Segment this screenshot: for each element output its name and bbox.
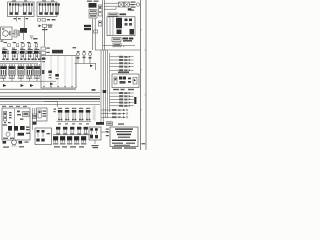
M4 transistor Q51 <box>90 128 93 134</box>
eq stage Q73 <box>70 127 74 135</box>
supply tap B9 <box>110 102 134 104</box>
rectifier cluster D31 <box>87 1 99 8</box>
SW1 label <box>120 13 127 15</box>
amplifier output block U1 (top-left box) <box>8 2 35 17</box>
title line 5 <box>112 140 136 141</box>
output jack row K1 <box>101 109 128 111</box>
M3 resistor R41 <box>128 78 131 83</box>
PL1 cord wire <box>129 4 136 6</box>
supply tap B2 <box>110 59 134 61</box>
footer note text <box>112 147 136 148</box>
capacitor C31 <box>98 21 102 26</box>
trimmer VR1 <box>77 53 80 64</box>
trimmer VR2 <box>83 52 86 63</box>
trimmer common wire W10 <box>75 64 97 71</box>
capacitor C12 <box>13 42 19 47</box>
value labels between rows <box>58 123 89 124</box>
supply tap B5 <box>110 69 134 71</box>
mixer stage T15 <box>86 108 91 121</box>
diode D11 <box>21 84 25 87</box>
title line 4 <box>118 137 130 138</box>
supply tap B4 <box>110 66 134 68</box>
M6 label text <box>43 111 47 117</box>
speaker terminal dots <box>2 29 11 36</box>
text row under M5 <box>3 142 29 148</box>
wire from R5 down to preamp box <box>43 27 45 46</box>
tuner box M5 <box>2 108 30 140</box>
eq stage Q74 <box>77 127 81 135</box>
filter IC U23 <box>67 136 72 144</box>
zener bank Z1 (dark bar) <box>134 97 136 104</box>
M3 capacitor C41 <box>114 77 117 84</box>
Q64 leads <box>12 144 16 147</box>
power supply module box M2 <box>107 17 135 36</box>
preamp IC U11 <box>0 64 7 79</box>
M5 oscillator X1 <box>23 112 30 117</box>
diode D1 arrow <box>39 25 42 28</box>
M1 electrolytic C21 <box>42 70 44 74</box>
M1 internal bus wires <box>44 56 72 88</box>
page edge tick marks <box>141 30 147 110</box>
driver stage Q15 <box>34 49 41 60</box>
ground symbol G1 <box>30 36 34 38</box>
bus wire W2 <box>0 62 38 64</box>
mixer stage T13 <box>72 108 77 121</box>
driver stage Q14 <box>27 49 34 60</box>
M5 transistor Q62 <box>14 126 18 131</box>
M5 value text <box>3 124 30 130</box>
title line 1 <box>115 128 133 129</box>
speaker LS1 box <box>1 27 13 40</box>
transformer T1 secondary winding <box>124 2 129 7</box>
bottom caption text <box>54 146 84 147</box>
part number labels above U1 <box>12 0 54 1</box>
M7 switch contact S2 <box>37 130 40 137</box>
preamp IC U15 <box>34 64 41 79</box>
driver stage Q11 <box>2 49 9 60</box>
M5 resistor R61 <box>9 112 12 118</box>
M5 trimmer cap CT1 <box>17 111 21 116</box>
power IC Q3 array left <box>39 3 49 15</box>
dark component R63 <box>3 141 7 144</box>
resistor R5 <box>43 24 47 27</box>
M5 wire dots <box>4 119 23 124</box>
wire W13 <box>103 46 135 47</box>
filter IC U24 <box>74 136 79 144</box>
tone control board box M1 <box>41 56 76 89</box>
signal wire W17 <box>44 102 57 108</box>
impedance label 8ohm <box>14 18 29 19</box>
output jack row K2 <box>101 113 128 115</box>
module M3 label <box>118 72 129 74</box>
fuse F1 on feed <box>94 30 98 33</box>
diode D21 <box>90 65 93 68</box>
value label under R5 <box>42 25 53 31</box>
switch S1 box <box>113 43 121 47</box>
voltage selector SW1 <box>108 13 118 16</box>
function switch label (dark block) <box>52 50 63 54</box>
M1 transistor Q22 <box>48 71 52 79</box>
M5 coil label (dark) <box>20 126 25 130</box>
right page border line B1 <box>140 0 142 150</box>
M5 resistor bar R62 <box>18 133 25 136</box>
power switch label (dark) <box>123 38 134 42</box>
page number text <box>142 143 146 144</box>
speaker harness label (dark block) <box>20 28 27 33</box>
VR2 wiper marks <box>83 51 86 58</box>
M5 text specks <box>3 133 30 139</box>
VR3 wiper marks <box>89 51 92 58</box>
T1 wires <box>104 3 118 9</box>
mixer common wire W18 <box>57 120 92 122</box>
connector J2 row under U2 <box>38 19 56 22</box>
wire from U1 pin <box>16 17 18 22</box>
supply tap B10 <box>110 105 134 107</box>
arrow marks column <box>106 129 109 137</box>
filter IC U21 <box>53 136 58 144</box>
supply tap B3 <box>110 62 134 64</box>
filter IC U22 <box>60 136 65 144</box>
test point label row <box>113 89 134 90</box>
eq stage Q72 <box>63 127 67 135</box>
speaker cone <box>3 31 9 37</box>
rail W8 <box>0 101 100 103</box>
wire stub label near CN1 <box>118 123 124 124</box>
capacitor C14 <box>27 42 31 47</box>
protection module box M3 <box>112 74 139 88</box>
M1 transistor Q23 <box>55 74 59 79</box>
M7 switch contact S3 <box>42 130 45 137</box>
driver stage Q12 <box>12 49 19 60</box>
M3 diode D41 <box>133 78 137 85</box>
M5 transistor Q61 <box>8 126 12 131</box>
diode D12 <box>30 84 34 87</box>
capacitor C13 <box>21 42 25 47</box>
supply rail W6 <box>0 95 100 97</box>
bracket mark <box>54 109 57 113</box>
title line 7 <box>126 143 135 144</box>
tuner section label row <box>2 102 7 103</box>
AC bus wires W12 <box>102 0 104 50</box>
input select resistor R21 <box>41 47 50 50</box>
filter IC U25 <box>81 136 86 144</box>
M4 transistor Q52 <box>95 128 98 134</box>
capacitor C1 <box>20 4 22 6</box>
stage reference labels row2 <box>3 48 38 49</box>
M2 choke T2 (hatched) <box>116 18 122 29</box>
title line 2 <box>116 131 132 132</box>
regulator REG1 box <box>89 10 97 14</box>
collector wire row W3 <box>0 78 56 82</box>
rail W9 <box>0 104 100 106</box>
bus terminator label (dark) <box>96 122 104 125</box>
M7 resistor R71 <box>36 139 39 142</box>
inductor L2 (dark) <box>33 122 37 125</box>
wire LS1 to J1 <box>12 33 24 40</box>
net label L5 <box>92 89 96 91</box>
relay RY1 <box>112 38 121 42</box>
eq stage Q75 <box>84 127 88 135</box>
main distribution wire W14 <box>95 49 140 51</box>
M7 resistor R72 <box>41 139 44 142</box>
output jack row K3 <box>101 116 128 118</box>
J1 pin labels <box>18 31 20 36</box>
preamp IC U13 <box>18 64 25 79</box>
M4 ground wire <box>94 140 96 144</box>
shaded board edge <box>93 106 96 121</box>
VR1 wiper marks <box>77 51 80 58</box>
M2 resistor R31 <box>130 29 135 35</box>
supply tap B6 <box>110 92 134 94</box>
thermal fuse F2 (dark) <box>128 8 132 10</box>
trimmer VR3 <box>89 53 92 64</box>
diode D14 <box>50 83 54 86</box>
input select resistor R22 <box>41 51 50 54</box>
capacitor C15 <box>34 42 38 47</box>
power IC Q1 array left <box>9 3 19 15</box>
supply rail W5 <box>0 92 100 94</box>
right page border line B2 <box>145 0 147 150</box>
filter capacitor C32 <box>99 5 103 16</box>
preamp IC U14 <box>26 64 33 79</box>
supply rail W4 <box>0 88 76 90</box>
coupling capacitor row: C11 <box>4 42 11 47</box>
M1 pin dots <box>44 86 73 87</box>
phono module box M4 <box>89 127 101 140</box>
capacitor C61 <box>33 114 37 119</box>
M4 output wire <box>101 131 110 133</box>
eq common wire W19 <box>53 134 93 136</box>
power feed wires W11 (vertical pair) <box>93 19 96 51</box>
node label row <box>1 38 38 42</box>
title line 3 <box>117 134 131 136</box>
mixer stage T14 <box>79 108 84 121</box>
driver stage Q13 <box>20 49 27 60</box>
bus wire W1 <box>0 61 41 63</box>
transformer T1 primary winding <box>119 2 124 7</box>
M2 rectifier D32 <box>125 19 133 26</box>
M5 IF transformer L1 <box>4 112 7 122</box>
M7 label <box>47 133 51 134</box>
power label P2 (dark) <box>84 28 91 30</box>
M5 transistor Q63 (circle) <box>6 132 10 136</box>
connector J1 <box>14 30 17 37</box>
M4 resistor R52 <box>95 135 98 138</box>
power label P1 (dark) <box>84 25 91 27</box>
M4 resistor R51 <box>90 135 93 138</box>
antenna wires W16 <box>33 108 35 130</box>
title line 8 <box>114 145 130 146</box>
supply tap B1 <box>110 56 134 58</box>
mixer stage T11 <box>58 108 63 121</box>
title block frame <box>110 127 138 147</box>
headphone jack box M7 <box>35 128 52 145</box>
main B+ rail W7 (thick) <box>0 98 100 100</box>
T1 value labels <box>131 2 136 11</box>
balance pot box M6 <box>37 108 48 121</box>
preamp IC U12 <box>9 64 16 79</box>
amplifier output block U2 (top-middle box) <box>37 2 57 17</box>
connector CN1 <box>107 122 113 126</box>
M5 internal wire <box>14 109 16 139</box>
M2 capacitor C33 <box>117 30 122 35</box>
M1 transistor Q21 <box>42 58 46 63</box>
M4 note text <box>92 145 99 148</box>
wire to speaker label <box>23 17 25 29</box>
dark component R64 <box>19 141 23 144</box>
supply tap B8 <box>110 98 134 100</box>
rail labels row <box>2 106 27 107</box>
power IC Q2 array right <box>23 3 33 15</box>
net label L2 <box>73 47 77 48</box>
transistor Q64 (circle below) <box>12 140 17 145</box>
M2 internal wires <box>110 17 113 36</box>
M3 transistor Q41 <box>119 77 126 84</box>
power IC Q4 array right <box>49 3 59 15</box>
ferrite bead FB1 on bus <box>103 90 107 93</box>
title line 6 <box>112 143 123 144</box>
eq stage Q71 <box>56 127 60 135</box>
AC plug PL1 <box>136 3 139 6</box>
distribution bus W15 (vertical) <box>101 50 110 122</box>
regulator REG2 box <box>89 14 97 18</box>
mixer stage T12 <box>65 108 70 121</box>
diode D13 <box>3 84 7 87</box>
M6 element <box>38 110 41 118</box>
supply tap B7 <box>110 95 134 97</box>
